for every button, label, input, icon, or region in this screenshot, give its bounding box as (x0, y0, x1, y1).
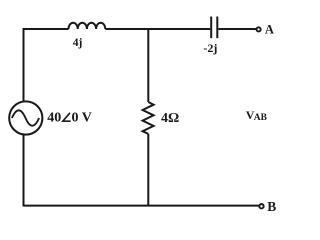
svg-text:-2j: -2j (203, 41, 217, 55)
svg-text:40: 40 (47, 111, 61, 126)
svg-text:A: A (265, 23, 274, 37)
svg-text:4j: 4j (73, 37, 83, 49)
svg-text:AB: AB (254, 113, 268, 123)
svg-text:B: B (267, 199, 276, 214)
svg-text:0 V: 0 V (72, 111, 92, 126)
svg-text:4Ω: 4Ω (161, 111, 179, 126)
